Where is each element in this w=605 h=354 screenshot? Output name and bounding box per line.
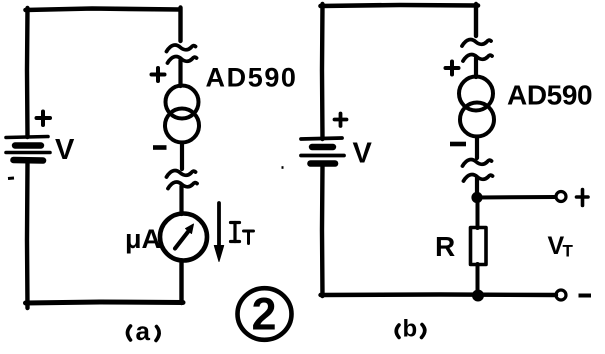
label V_T output voltage (b) xyxy=(548,232,574,261)
svg-text:R: R xyxy=(435,231,455,262)
wire: circuit (b) top rail xyxy=(321,5,479,6)
break symbol upper (a): tilde 2 xyxy=(168,57,197,63)
svg-text:T: T xyxy=(563,242,574,261)
resistor R (b) xyxy=(471,228,487,265)
label (b): right paren xyxy=(422,325,425,338)
current source U1 AD590 (a): lower circle xyxy=(165,109,199,143)
wire: circuit (b) bottom rail xyxy=(321,292,557,297)
label (a): left paren xyxy=(128,326,131,340)
label (a): right paren xyxy=(156,327,159,341)
break symbol lower (b): tilde 1 xyxy=(463,160,492,166)
label + of AD590 (a) xyxy=(152,68,165,81)
node: upper junction (b) xyxy=(471,192,482,203)
wire: ammeter to bottom rail (a) xyxy=(179,261,183,304)
label + of AD590 (b) xyxy=(446,62,459,75)
wire: AD590 to lower break (b) xyxy=(475,137,479,159)
current source U2 AD590 (b): lower circle xyxy=(460,103,494,137)
figure number 2: circle xyxy=(238,288,292,340)
wire: circuit (a) left vertical lower xyxy=(25,162,30,308)
wire: circuit (a) left vertical upper xyxy=(25,8,30,137)
current source U2 AD590 (b): upper circle xyxy=(459,77,493,111)
break symbol upper (a): tilde 1 xyxy=(167,45,196,51)
wire: break to AD590 top (b) xyxy=(474,58,478,77)
svg-text:μA: μA xyxy=(125,224,161,254)
label - of AD590 (a) xyxy=(153,145,167,150)
break symbol lower (b): tilde 2 xyxy=(464,175,493,181)
wire: break to ammeter (a) xyxy=(179,186,183,214)
svg-text:b: b xyxy=(403,316,418,343)
ammeter M1 (a): needle xyxy=(175,224,194,249)
svg-text:a: a xyxy=(136,316,151,346)
wire: break to node (b) xyxy=(475,178,479,197)
wire: circuit (a) right branch from top rail xyxy=(178,8,182,42)
wire: circuit (b) left vertical lower xyxy=(320,165,325,296)
wire: junction to + terminal (b) xyxy=(477,195,556,200)
break symbol upper (b): tilde 1 xyxy=(462,40,491,46)
wire: AD590 to lower break (a) xyxy=(180,143,184,170)
wire: circuit (a) top rail xyxy=(26,9,181,11)
label - of AD590 (b) xyxy=(450,142,466,147)
wire: circuit (b) left vertical upper xyxy=(320,4,325,139)
wire: circuit (a) bottom rail xyxy=(26,302,184,303)
break symbol lower (a): tilde 1 xyxy=(167,171,196,177)
svg-text:2: 2 xyxy=(251,289,276,340)
wire: break to AD590 top (a) xyxy=(178,60,182,86)
wire: resistor to bottom rail (b) xyxy=(476,264,480,296)
current arrow I_T (a) xyxy=(214,203,223,262)
battery V (a) xyxy=(6,137,50,161)
label + of output terminal (b) xyxy=(577,190,589,206)
break symbol upper (b): tilde 2 xyxy=(463,55,492,61)
label + of battery V (b) xyxy=(335,114,347,127)
wire: circuit (b) right branch from top rail xyxy=(474,4,478,36)
terminal - (b): open circle xyxy=(556,290,566,300)
speck near left wire xyxy=(8,177,14,181)
svg-text:V: V xyxy=(353,138,373,170)
speck right of meter xyxy=(282,166,284,169)
label (b): left paren xyxy=(396,325,399,338)
wire: junction to resistor (b) xyxy=(476,198,480,228)
svg-text:AD590: AD590 xyxy=(206,63,298,93)
label - of output terminal (b) xyxy=(579,294,592,298)
label I of I_T (a) xyxy=(231,223,240,242)
current source U1 AD590 (a): upper circle xyxy=(166,86,199,119)
svg-text:AD590: AD590 xyxy=(507,80,592,111)
node: lower junction (b) xyxy=(472,290,484,302)
terminal + (b): open circle xyxy=(556,192,566,202)
battery V (b) xyxy=(301,138,344,164)
label T subscript of I_T (a) xyxy=(244,231,254,244)
svg-text:V: V xyxy=(55,134,75,166)
ammeter M1 (a): case xyxy=(160,214,207,261)
break symbol lower (a): tilde 2 xyxy=(168,182,197,188)
label + of battery V (a) xyxy=(37,112,51,126)
